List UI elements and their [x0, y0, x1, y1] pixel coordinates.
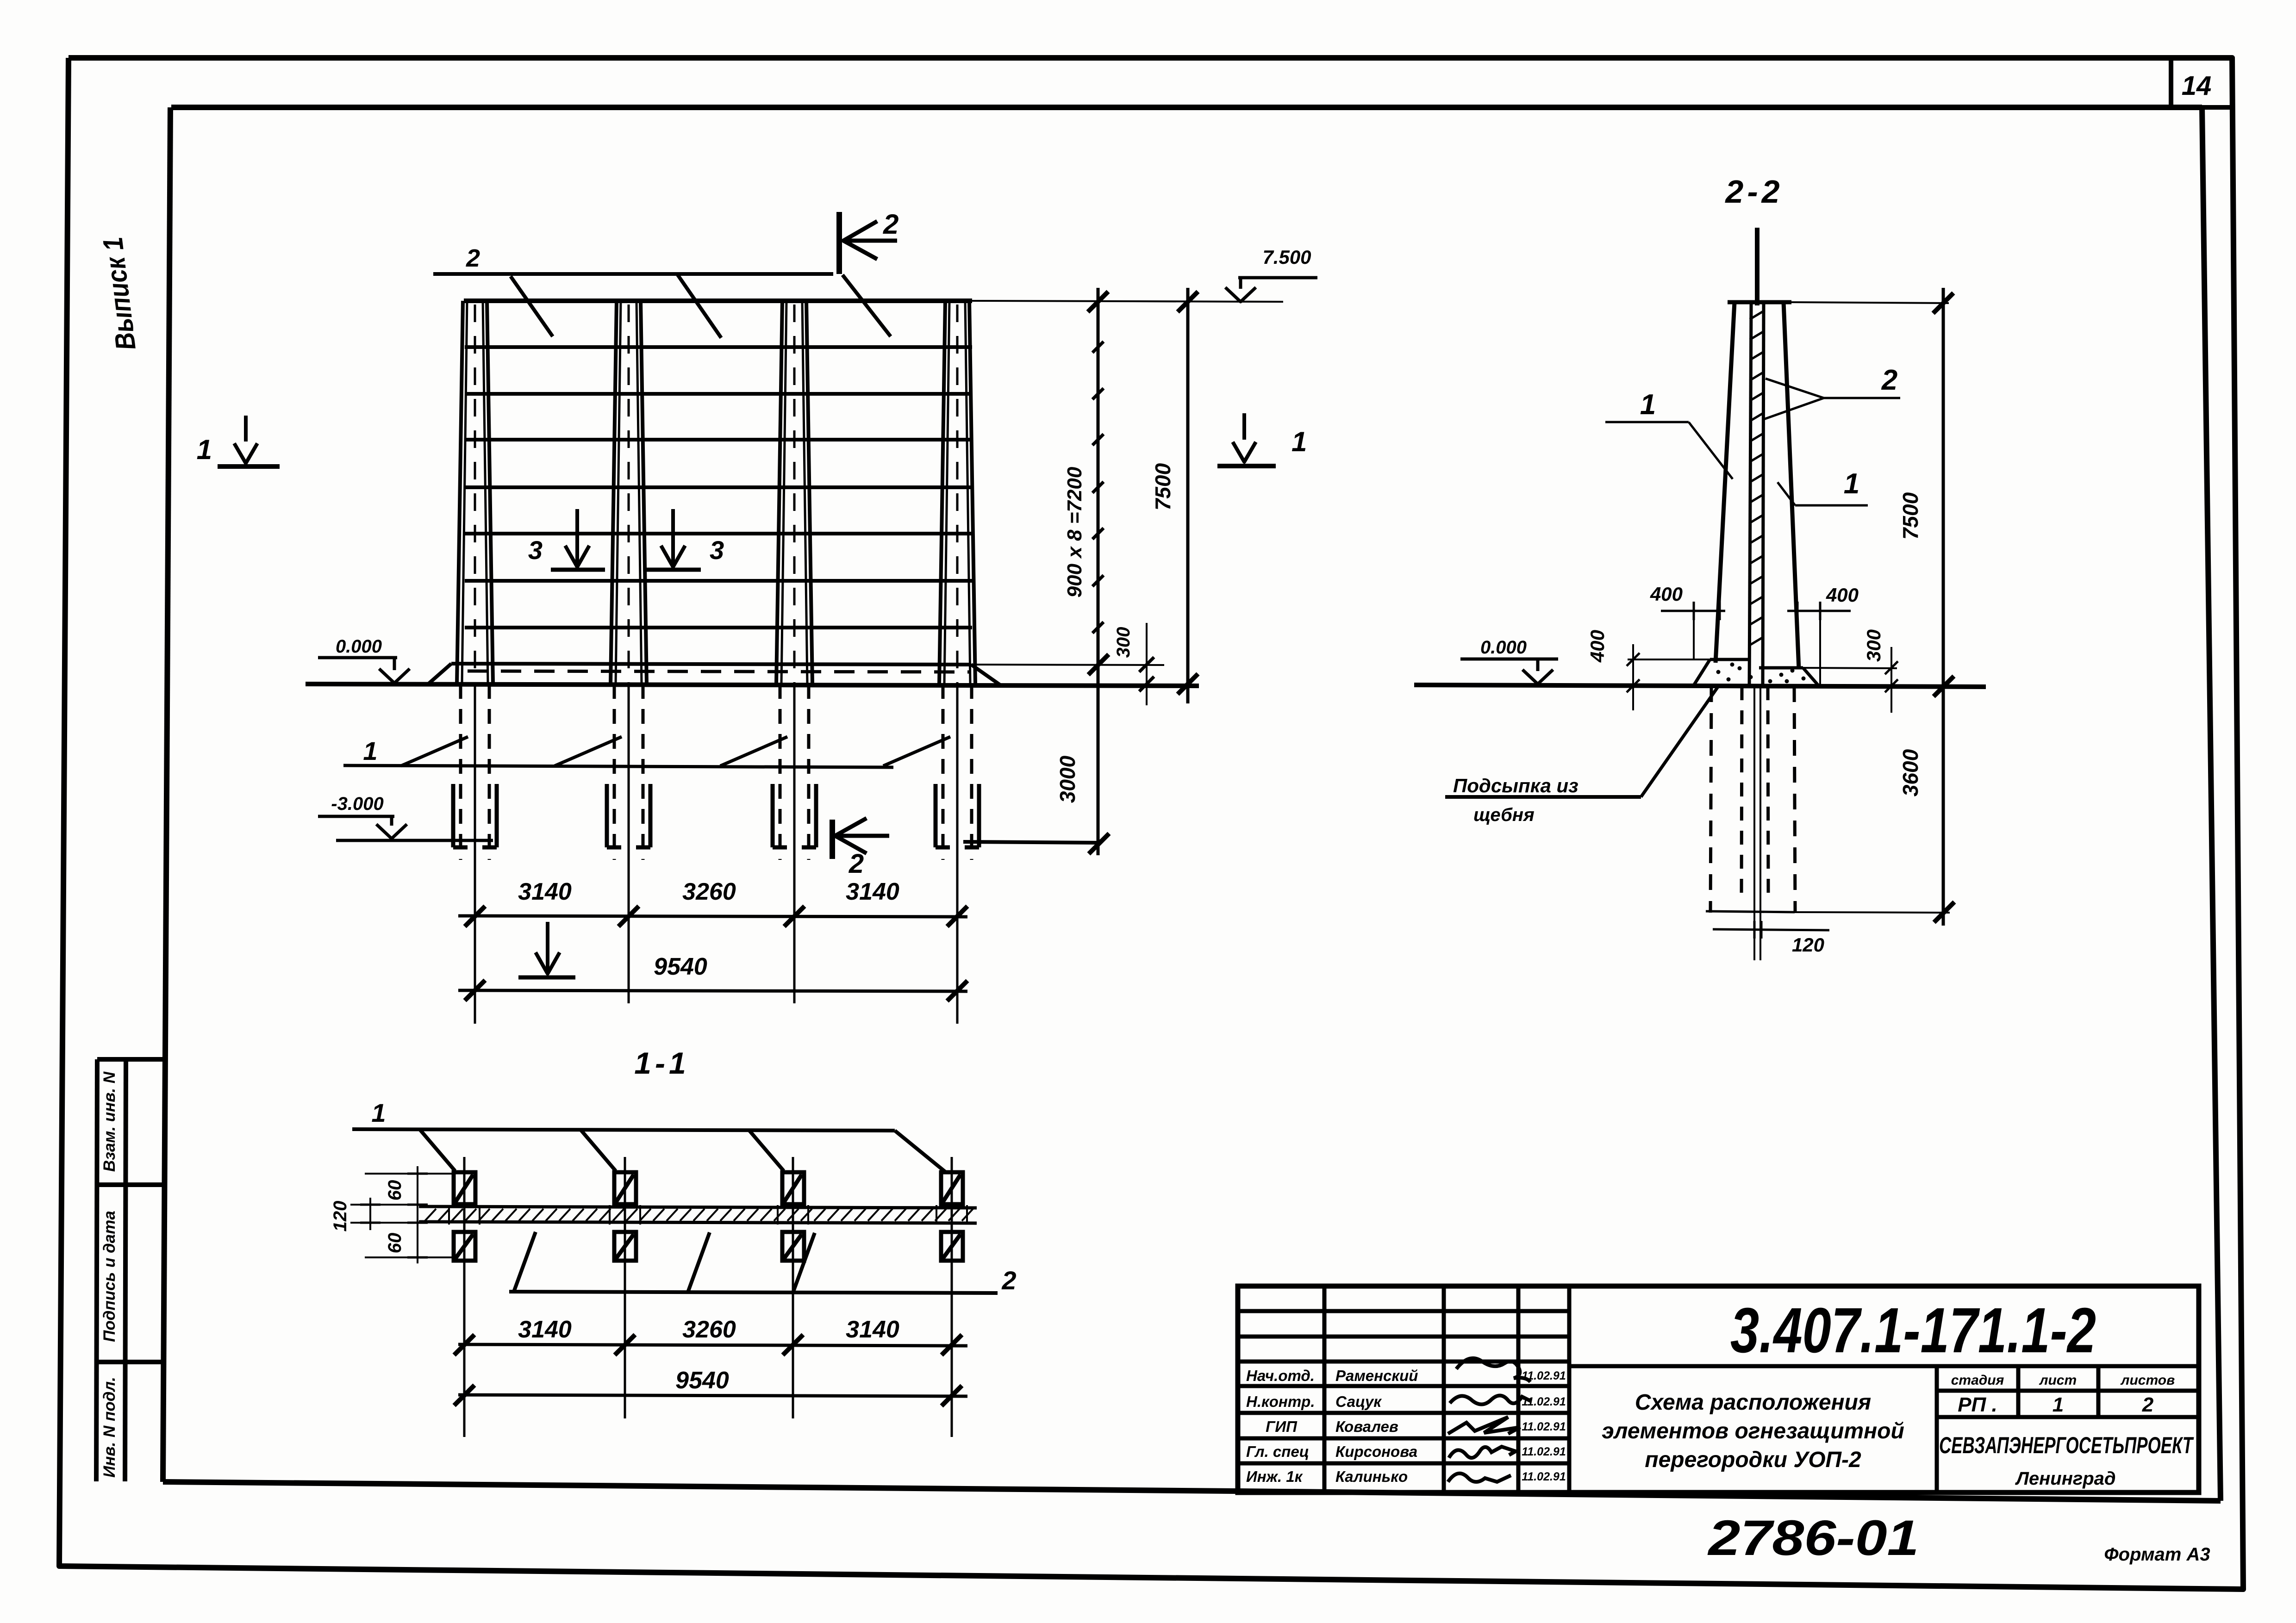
svg-text:1-1: 1-1 — [634, 1046, 689, 1080]
svg-text:120: 120 — [330, 1201, 350, 1232]
svg-text:400: 400 — [1650, 583, 1683, 605]
svg-text:11.02.91: 11.02.91 — [1522, 1445, 1566, 1458]
svg-text:2-2: 2-2 — [1724, 174, 1783, 210]
svg-text:1: 1 — [371, 1098, 386, 1127]
svg-text:3140: 3140 — [846, 1316, 899, 1343]
svg-text:400: 400 — [1586, 630, 1608, 663]
svg-text:-3.000: -3.000 — [331, 794, 383, 814]
svg-text:0.000: 0.000 — [1480, 637, 1527, 658]
svg-text:2: 2 — [466, 244, 480, 272]
svg-text:листов: листов — [2120, 1373, 2175, 1388]
svg-text:2: 2 — [883, 209, 898, 240]
svg-text:Раменский: Раменский — [1335, 1367, 1418, 1384]
svg-text:400: 400 — [1826, 584, 1859, 606]
svg-text:перегородки УОП-2: перегородки УОП-2 — [1645, 1448, 1861, 1472]
svg-text:Калинько: Калинько — [1335, 1468, 1408, 1485]
svg-text:3140: 3140 — [518, 1316, 572, 1343]
svg-text:9540: 9540 — [654, 953, 707, 980]
svg-text:2: 2 — [2142, 1393, 2154, 1416]
svg-text:120: 120 — [1792, 934, 1824, 956]
svg-text:60: 60 — [385, 1233, 405, 1254]
svg-text:Ковалев: Ковалев — [1335, 1418, 1398, 1435]
svg-text:3: 3 — [528, 535, 543, 565]
svg-text:элементов огнезащитной: элементов огнезащитной — [1602, 1419, 1904, 1443]
svg-text:3600: 3600 — [1898, 749, 1922, 796]
svg-text:7.500: 7.500 — [1262, 246, 1311, 268]
svg-text:ГИП: ГИП — [1266, 1418, 1298, 1435]
svg-text:60: 60 — [385, 1180, 405, 1201]
svg-text:3260: 3260 — [682, 878, 736, 905]
svg-text:7500: 7500 — [1151, 463, 1175, 510]
svg-text:14: 14 — [2182, 71, 2212, 101]
svg-text:Нач.отд.: Нач.отд. — [1246, 1367, 1315, 1384]
svg-text:РП .: РП . — [1958, 1393, 1997, 1416]
svg-text:Ленинград: Ленинград — [2015, 1468, 2115, 1489]
svg-text:Гл. спец: Гл. спец — [1246, 1443, 1309, 1460]
svg-text:Взам. инв. N: Взам. инв. N — [100, 1071, 119, 1172]
svg-text:900 x 8 =7200: 900 x 8 =7200 — [1063, 466, 1086, 597]
svg-text:Формат А3: Формат А3 — [2104, 1544, 2210, 1565]
svg-text:1: 1 — [197, 434, 212, 465]
svg-text:300: 300 — [1863, 629, 1884, 662]
svg-text:Кирсонова: Кирсонова — [1335, 1443, 1417, 1460]
svg-text:300: 300 — [1113, 627, 1134, 658]
svg-text:Инж. 1к: Инж. 1к — [1246, 1468, 1304, 1485]
svg-text:2: 2 — [1881, 364, 1897, 396]
svg-text:1: 1 — [1844, 468, 1859, 500]
svg-text:1: 1 — [363, 736, 377, 765]
svg-text:лист: лист — [2039, 1373, 2077, 1388]
svg-text:3.407.1-171.1-2: 3.407.1-171.1-2 — [1730, 1295, 2096, 1366]
svg-text:3140: 3140 — [846, 878, 899, 905]
svg-text:щебня: щебня — [1473, 805, 1535, 825]
svg-text:7500: 7500 — [1898, 492, 1922, 540]
svg-text:2: 2 — [1001, 1266, 1016, 1295]
svg-text:3260: 3260 — [682, 1316, 736, 1343]
svg-text:Сацук: Сацук — [1335, 1393, 1382, 1410]
svg-text:3000: 3000 — [1055, 755, 1079, 803]
svg-text:Схема расположения: Схема расположения — [1635, 1390, 1871, 1415]
svg-text:Подпись и дата: Подпись и дата — [100, 1211, 119, 1342]
svg-text:0.000: 0.000 — [336, 636, 382, 657]
svg-text:Инв. N подл.: Инв. N подл. — [100, 1377, 119, 1478]
svg-text:СЕВЗАПЭНЕРГОСЕТЬПРОЕКТ: СЕВЗАПЭНЕРГОСЕТЬПРОЕКТ — [1939, 1432, 2194, 1458]
svg-text:11.02.91: 11.02.91 — [1522, 1420, 1566, 1433]
svg-text:1: 1 — [1291, 426, 1307, 457]
svg-text:1: 1 — [1640, 389, 1656, 421]
svg-text:2786-01: 2786-01 — [1707, 1510, 1919, 1566]
svg-text:стадия: стадия — [1951, 1373, 2004, 1388]
svg-text:3140: 3140 — [518, 878, 572, 905]
svg-text:Н.контр.: Н.контр. — [1246, 1393, 1315, 1410]
svg-text:Подсыпка из: Подсыпка из — [1453, 775, 1578, 796]
svg-text:1: 1 — [2053, 1393, 2064, 1416]
svg-text:11.02.91: 11.02.91 — [1522, 1470, 1566, 1483]
svg-text:2: 2 — [849, 849, 864, 879]
svg-text:3: 3 — [710, 535, 724, 565]
svg-text:9540: 9540 — [675, 1367, 729, 1394]
